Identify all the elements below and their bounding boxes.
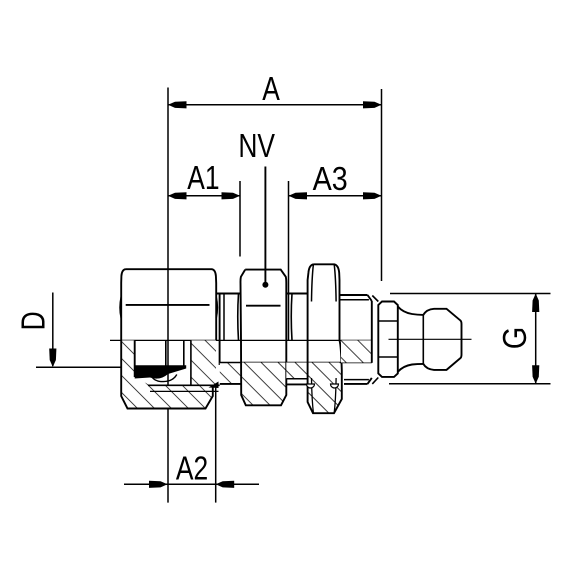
nipple neck-head junction xyxy=(422,315,424,364)
dimension G extension line top xyxy=(390,293,551,295)
nut right chamfer arc xyxy=(216,297,217,318)
hex-stud transition right xyxy=(290,294,293,341)
neck top edge xyxy=(217,293,242,295)
locknut lower chamfer curve left xyxy=(312,378,314,413)
nut skirt thread line xyxy=(150,390,219,392)
dimension A arrow left xyxy=(168,101,187,108)
dimension A arrow right xyxy=(363,101,382,108)
stud OD line bottom xyxy=(344,383,368,385)
svg-text:A2: A2 xyxy=(176,451,208,487)
tube nut outline xyxy=(121,269,216,408)
nut bore line inner xyxy=(165,340,167,366)
stud thread crest line top xyxy=(340,299,369,301)
locknut thread relief arc right xyxy=(331,384,339,388)
dimension A3 line xyxy=(289,195,382,197)
dimension G arrow down xyxy=(532,365,539,384)
nut bore line inner2 xyxy=(183,340,185,366)
dimension D reference line xyxy=(36,366,121,368)
dimension A1 extension line right xyxy=(239,181,241,257)
nipple head outline xyxy=(423,309,461,370)
NV leader dot xyxy=(262,282,268,288)
cutting ring wedge (solid) xyxy=(135,365,187,378)
dimension A2 arrow right outside xyxy=(216,481,235,488)
stud top edge right of locknut xyxy=(340,294,368,296)
locknut inner chamfer curve right xyxy=(334,264,336,301)
nut hex face line xyxy=(126,304,210,306)
svg-text:NV: NV xyxy=(238,128,275,164)
nipple hex face line lower xyxy=(378,356,398,358)
dimension A3 arrow right xyxy=(363,192,382,199)
dimension A1 arrow right xyxy=(222,192,241,199)
locknut inner chamfer curve left xyxy=(312,264,314,301)
nut section hatch xyxy=(121,340,216,408)
stud end face xyxy=(371,301,373,363)
nut left chamfer arc xyxy=(120,297,121,318)
NV leader line xyxy=(264,167,266,285)
nut-body joint vertical xyxy=(219,294,221,366)
dimension A line xyxy=(168,104,382,106)
locknut outline xyxy=(308,264,342,413)
dimension A3 arrow left xyxy=(289,192,308,199)
dimension A extension line left xyxy=(167,88,169,503)
web hatch right of locknut xyxy=(341,340,372,362)
stud thread root line gap xyxy=(286,378,307,380)
centerline / section boundary xyxy=(110,339,372,341)
dimension A extension line right xyxy=(381,89,383,281)
svg-text:G: G xyxy=(496,327,533,350)
nipple hex xyxy=(378,302,398,377)
dimension G extension line bottom xyxy=(389,383,551,385)
stud thread crest line bottom xyxy=(344,379,369,381)
locknut zone hatch xyxy=(308,363,342,414)
nut-body joint vertical 2 xyxy=(223,294,225,341)
stud OD line gap xyxy=(286,383,307,385)
dimension A2 extension line right xyxy=(215,386,217,503)
locknut lower chamfer curve right xyxy=(334,378,336,413)
nipple hex face line upper xyxy=(378,320,398,322)
neck hatch xyxy=(220,363,242,384)
body bore wall line xyxy=(220,362,372,364)
svg-text:A1: A1 xyxy=(187,160,219,196)
dimension A2 line xyxy=(124,483,259,485)
nut thread run-out wedge xyxy=(209,382,219,389)
dimension D arrow down xyxy=(49,349,56,368)
nipple shank chamfer bottom xyxy=(372,378,378,384)
nipple neck bottom xyxy=(398,364,424,372)
stud gap hatch xyxy=(286,363,307,379)
dimension G arrow up xyxy=(532,294,539,313)
locknut thread relief arc left xyxy=(307,384,315,388)
neck bottom edge xyxy=(220,383,242,385)
dimension A2 arrow left outside xyxy=(149,481,168,488)
nipple neck top xyxy=(398,307,424,315)
body hex lobe hatch xyxy=(241,363,286,406)
body hex outline xyxy=(240,270,286,406)
stud end chamfer top xyxy=(368,295,372,301)
dimension A1 line xyxy=(168,195,240,197)
nut bore line right xyxy=(190,340,192,385)
nipple centerline xyxy=(389,338,472,340)
dimension D leader line xyxy=(52,293,54,367)
stud top edge between hex and locknut xyxy=(286,293,307,295)
nut bore line left xyxy=(134,340,136,377)
svg-text:A3: A3 xyxy=(313,160,348,197)
svg-text:A: A xyxy=(262,71,280,107)
svg-text:D: D xyxy=(16,311,52,330)
dimension A1 arrow left xyxy=(168,192,187,199)
nut bottom bore line xyxy=(148,384,220,386)
body hex face line xyxy=(246,305,281,307)
hex-neck transition left xyxy=(237,294,240,341)
dimension G line xyxy=(535,294,537,384)
stud end chamfer bottom xyxy=(368,378,372,384)
nipple shank chamfer top xyxy=(372,296,378,302)
dimension A3 extension line left xyxy=(288,181,290,340)
tube end arc xyxy=(151,375,177,382)
